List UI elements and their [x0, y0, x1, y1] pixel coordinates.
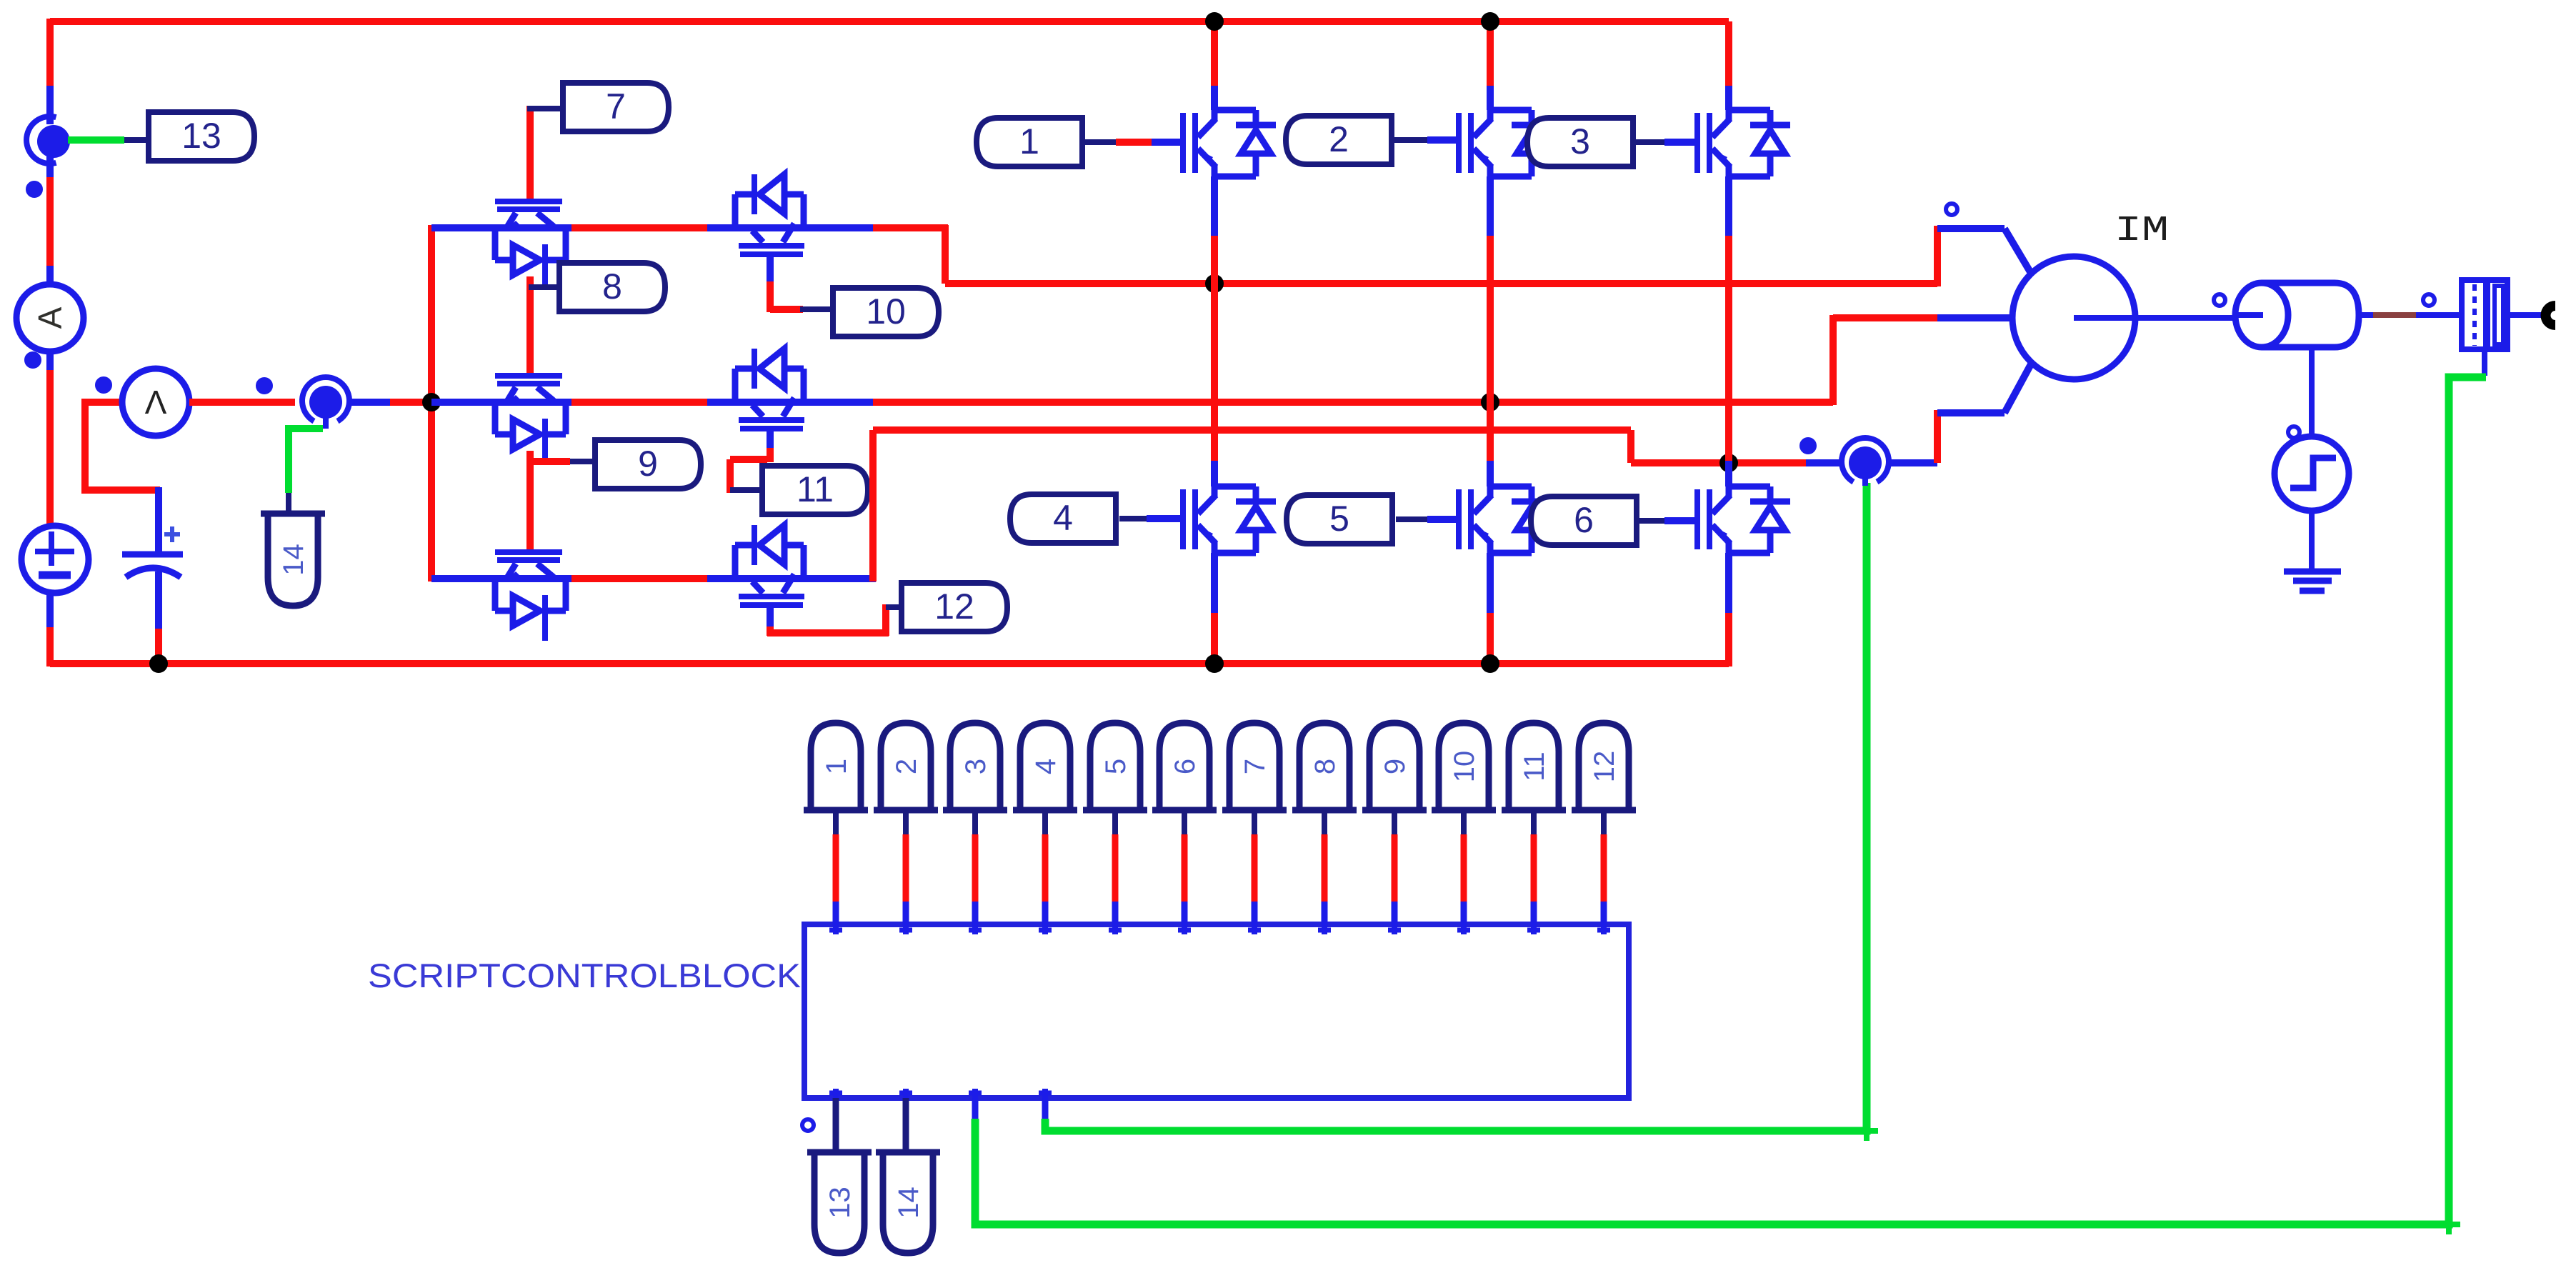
wire left column top segment	[46, 19, 54, 86]
wire voltmeter to sensor2	[189, 399, 295, 406]
IGBT Q6	[1694, 486, 1790, 553]
wire label5 lead	[1396, 516, 1427, 522]
pin tick top 8	[1322, 924, 1327, 934]
wire source to bottom rail	[46, 592, 54, 627]
svg-text:6: 6	[1169, 759, 1201, 774]
svg-text:12: 12	[934, 586, 974, 626]
pin tick top 6	[1182, 924, 1187, 934]
label 5	[1287, 495, 1392, 544]
pin label 9 (vertical capsule)	[1369, 723, 1419, 810]
wire load bottom	[2309, 347, 2315, 437]
pin tick top 10	[1461, 924, 1467, 934]
induction machine IM	[2012, 256, 2135, 379]
node marker dot	[258, 379, 271, 392]
wire phase C	[869, 430, 877, 581]
wire label11 lead	[730, 487, 765, 493]
pin tick top 9	[1392, 924, 1397, 934]
pin tick bottom 1	[833, 1089, 839, 1100]
wire bottom DC- rail	[50, 660, 1729, 667]
current sensor ISEN1	[26, 116, 56, 164]
wire pin8 lead	[1322, 810, 1327, 834]
svg-text:8: 8	[1309, 759, 1341, 774]
wire sensor3 to motor	[1887, 459, 1937, 466]
wire label7 gate drop	[526, 106, 534, 202]
wire leg3 top	[1725, 21, 1732, 86]
wire label12 lead	[886, 604, 902, 610]
pin tick top 11	[1531, 924, 1537, 934]
svg-text:12: 12	[1589, 751, 1620, 783]
IGBT Q2	[1456, 110, 1552, 176]
wire leg1 top	[1211, 21, 1218, 86]
wire label9 lead	[527, 458, 570, 465]
wire green speed feedback (pin4 - sensor3)	[1042, 1098, 1049, 1120]
wire leg2 upper-emitter	[1487, 176, 1494, 236]
mechanical load TL	[2235, 283, 2288, 347]
wire label7 lead	[527, 106, 564, 111]
junction dot	[149, 654, 168, 673]
svg-text:11: 11	[1519, 752, 1550, 782]
node marker dot	[28, 183, 41, 196]
DC voltage source VDC	[21, 526, 89, 593]
wire matrix row 1	[431, 224, 571, 231]
pin tick top 1	[833, 924, 839, 934]
label 14 (vertical)	[268, 514, 318, 606]
svg-text:A: A	[31, 306, 69, 329]
wire cell2-cell3 link	[526, 451, 534, 552]
step torque source	[2275, 436, 2349, 511]
svg-text:V: V	[144, 384, 166, 421]
wire leg2 lower-collector	[1487, 402, 1494, 461]
wire capacitor bottom to rail	[155, 571, 162, 629]
wire bottom pin1 to label13	[833, 1098, 839, 1154]
pin tick top 5	[1112, 924, 1118, 934]
wire label2 lead	[1393, 137, 1427, 143]
junction dot top rail leg2	[1481, 12, 1499, 31]
svg-text:9: 9	[638, 444, 658, 484]
wire cell S10 to label10	[767, 257, 774, 281]
svg-text:4: 4	[1030, 759, 1062, 774]
IGBT Q1	[1180, 110, 1276, 176]
svg-text:7: 7	[606, 86, 626, 126]
wire pin5 lead	[1112, 810, 1118, 834]
pin tick bottom 4	[1042, 1089, 1048, 1100]
IGBT Q3	[1694, 110, 1790, 176]
wire pin2 lead	[903, 810, 909, 834]
pin label 4 (vertical capsule)	[1020, 723, 1070, 810]
pin tick top 3	[972, 924, 978, 934]
node marker dot	[2423, 294, 2435, 306]
wire label4 lead	[1119, 516, 1147, 521]
wire pin6 lead	[1182, 810, 1187, 834]
junction dot bus/row2	[422, 393, 441, 411]
label 11	[762, 466, 868, 514]
svg-text:3: 3	[960, 759, 992, 774]
motor shaft	[2074, 315, 2238, 321]
wire leg1 upper-emitter	[1211, 176, 1218, 236]
label 14 (block output)	[883, 1152, 933, 1253]
wire leg1 bottom	[1211, 553, 1218, 613]
svg-text:13: 13	[181, 116, 221, 156]
pin label 2 (vertical capsule)	[881, 723, 931, 810]
wire cell S12 to label12	[767, 608, 774, 626]
wire label8 lead	[529, 284, 561, 290]
svg-text:5: 5	[1100, 759, 1132, 774]
node marker dot	[97, 379, 110, 391]
wire leg3 upper-emitter	[1725, 176, 1732, 236]
pin label 11 (vertical capsule)	[1509, 723, 1559, 810]
bidirectional switch S9 (left col row3)	[495, 549, 566, 641]
svg-text:2: 2	[891, 759, 922, 774]
IGBT Q5	[1456, 486, 1552, 553]
svg-text:11: 11	[797, 469, 834, 509]
wire leg3 lower-collector	[1725, 463, 1732, 486]
label 13 (block output)	[814, 1152, 864, 1253]
wire top DC+ rail	[50, 18, 1729, 25]
node marker dot	[2214, 294, 2225, 306]
pin label 10 (vertical capsule)	[1439, 723, 1489, 810]
svg-text:6: 6	[1574, 500, 1594, 540]
label 13	[149, 112, 254, 161]
svg-text:SCRIPTCONTROLBLOCK: SCRIPTCONTROLBLOCK	[368, 957, 801, 994]
green corner tick	[1855, 1128, 1878, 1134]
wire shaft link	[2357, 312, 2373, 318]
wire sensor2 to matrix bus node	[350, 399, 390, 406]
svg-text:5: 5	[1329, 499, 1349, 539]
pin tick top 4	[1042, 924, 1048, 934]
wire leg1 lower-collector	[1211, 284, 1218, 461]
ground	[2284, 569, 2341, 575]
svg-text:8: 8	[602, 266, 622, 306]
label 8	[559, 263, 665, 311]
pin tick top 7	[1252, 924, 1257, 934]
label 3	[1527, 118, 1633, 166]
svg-text:3: 3	[1570, 121, 1590, 161]
wire pin12 lead	[1601, 810, 1607, 834]
node marker dot	[26, 354, 39, 366]
svg-text:14: 14	[893, 1187, 924, 1219]
IGBT Q4	[1180, 486, 1276, 553]
output terminal	[2545, 306, 2555, 325]
node marker dot	[802, 1119, 814, 1131]
label 2	[1286, 116, 1392, 164]
wire label6 lead	[1635, 518, 1664, 524]
node marker dot	[1946, 204, 1957, 215]
wire leg2 top	[1487, 21, 1494, 86]
capacitor C1	[122, 551, 183, 558]
wire pin10 lead	[1461, 810, 1467, 834]
svg-text:4: 4	[1053, 498, 1073, 538]
label 1	[977, 118, 1082, 166]
svg-text:1: 1	[1019, 121, 1039, 161]
label 6	[1531, 496, 1637, 545]
pin label 12 (vertical capsule)	[1579, 723, 1629, 810]
wire label10 lead	[800, 306, 834, 312]
pin tick top 12	[1601, 924, 1607, 934]
wire label1 lead	[1085, 139, 1116, 145]
wire to ground	[2309, 509, 2315, 571]
pin label 8 (vertical capsule)	[1299, 723, 1349, 810]
bidirectional switch S7 (left col row1)	[495, 199, 566, 290]
wire green sensor1 to label 13	[68, 136, 124, 144]
label 4	[1010, 494, 1116, 543]
wire matrix row 2	[431, 399, 571, 406]
svg-text:9: 9	[1379, 759, 1411, 774]
label 7	[563, 83, 669, 131]
junction dot leg3/phaseC	[1719, 454, 1738, 472]
pin tick bottom 3	[972, 1089, 978, 1100]
svg-text:10: 10	[1449, 751, 1480, 783]
wire green sensor2 to label 14	[323, 417, 329, 429]
wire ammeter to source	[46, 351, 54, 370]
svg-text:14: 14	[278, 544, 309, 576]
wire green speed feedback (pin3 - speed sensor)	[972, 1098, 979, 1120]
junction dot leg1 midpoint	[1205, 274, 1224, 293]
wire matrix left bus	[428, 225, 435, 581]
bidirectional switch S8 (left col row2)	[495, 373, 566, 464]
current sensor ISEN3	[1842, 438, 1889, 482]
junction dot bottom rail leg1	[1205, 654, 1224, 673]
label 9	[595, 440, 701, 489]
wire pin1 lead	[833, 810, 839, 834]
wire pin9 lead	[1392, 810, 1397, 834]
bidirectional switch S12 (right col row3)	[735, 525, 804, 608]
svg-text:13: 13	[824, 1187, 856, 1219]
node marker dot	[1802, 439, 1814, 452]
wire voltmeter left leg	[85, 402, 160, 490]
green corner tick	[2437, 1222, 2460, 1227]
wire pin7 lead	[1252, 810, 1257, 834]
pin label 6 (vertical capsule)	[1159, 723, 1209, 810]
wire phase B	[873, 399, 1833, 406]
bidirectional switch S10 (right col row1)	[735, 174, 804, 257]
svg-text:2: 2	[1329, 119, 1349, 159]
label 12	[902, 583, 1007, 631]
wire capacitor top	[155, 487, 162, 551]
wire leg2 bottom	[1487, 553, 1494, 613]
speed sensor W	[2462, 280, 2507, 349]
wire cell S11 to label11	[767, 431, 774, 448]
script control block body	[804, 924, 1629, 1098]
svg-text:IM: IM	[2115, 211, 2169, 251]
pin label 1 (vertical capsule)	[811, 723, 861, 810]
wire phase A	[942, 225, 949, 284]
wire pin4 lead	[1042, 810, 1048, 834]
ammeter A1	[16, 284, 84, 351]
wire pin11 lead	[1531, 810, 1537, 834]
wire speed sensor bottom stub	[2482, 349, 2487, 376]
current sensor ISEN2	[302, 377, 349, 421]
label 10	[833, 288, 939, 336]
node marker dot	[2288, 426, 2300, 438]
junction dot bottom rail leg2	[1481, 654, 1499, 673]
wire cell1-cell2 link	[526, 276, 534, 376]
wire sensor1 to ammeter	[46, 156, 54, 177]
wire label3 lead	[1632, 139, 1664, 145]
pin label 5 (vertical capsule)	[1090, 723, 1140, 810]
junction dot leg2 midpoint	[1481, 393, 1499, 411]
svg-text:7: 7	[1239, 759, 1271, 774]
voltmeter V1	[122, 369, 189, 436]
svg-text:1: 1	[821, 759, 852, 774]
wire pin3 lead	[972, 810, 978, 834]
bidirectional switch S11 (right col row2)	[735, 349, 804, 431]
wire matrix row 3	[431, 575, 571, 582]
wire leg3 bottom	[1725, 553, 1732, 613]
pin label 3 (vertical capsule)	[950, 723, 1000, 810]
wire bottom pin2 to label14	[903, 1098, 909, 1154]
pin tick bottom 2	[903, 1089, 909, 1100]
junction dot top rail leg1	[1205, 12, 1224, 31]
svg-text:10: 10	[866, 291, 906, 331]
pin label 7 (vertical capsule)	[1229, 723, 1279, 810]
wire sensor output	[2507, 312, 2543, 318]
pin tick top 2	[903, 924, 909, 934]
